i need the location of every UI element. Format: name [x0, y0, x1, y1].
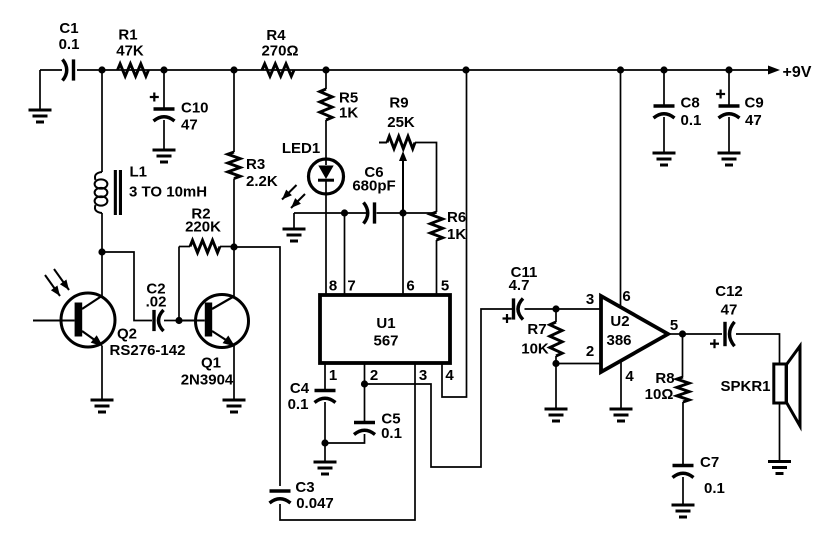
svg-text:R3: R3: [246, 156, 265, 173]
svg-text:2N3904: 2N3904: [181, 372, 234, 389]
op-amp U2 audio amp 386: [601, 296, 668, 372]
wire rail to L1: [101, 70, 103, 172]
node C2/R2/Q1 base junction: [175, 317, 182, 324]
svg-text:U1: U1: [376, 315, 395, 332]
node rail junction at R3: [230, 66, 237, 73]
svg-text:Q2: Q2: [117, 326, 137, 343]
node U1 pin 2 junction: [361, 380, 368, 387]
wire R6 to U1 pin 5: [436, 240, 438, 295]
wire Q2 emitter to ground: [101, 346, 103, 400]
wire C9 to ground: [728, 117, 730, 153]
wire U1 pin 2 lead: [364, 363, 366, 384]
svg-text:0.1: 0.1: [381, 425, 402, 442]
svg-text:C3: C3: [295, 479, 314, 496]
svg-text:5: 5: [441, 278, 449, 295]
svg-text:0.1: 0.1: [681, 112, 702, 129]
wire C3 top to R2/R3 node: [234, 247, 280, 486]
transistor Q1: [179, 295, 249, 389]
speaker SPKR1: [720, 346, 800, 426]
resistor R7: [521, 309, 562, 358]
svg-text:2.2K: 2.2K: [246, 173, 278, 190]
wire C8 to ground: [663, 117, 665, 153]
svg-text:2: 2: [586, 343, 594, 360]
svg-text:6: 6: [622, 288, 630, 305]
svg-text:C9: C9: [745, 95, 764, 112]
wire rail to R5: [325, 70, 327, 89]
wire C1 left to ground: [39, 70, 41, 110]
wire rail to C9: [728, 70, 730, 105]
resistor R8: [645, 370, 690, 403]
svg-text:6: 6: [406, 278, 414, 295]
svg-text:2: 2: [370, 367, 378, 384]
ground under R7: [545, 409, 568, 421]
wire Q1 emitter to ground: [233, 346, 235, 400]
Q2 incident light arrows: [45, 269, 69, 296]
inductor L1: [95, 164, 207, 216]
ground stub on LED row: [293, 213, 295, 229]
wire C12 to speaker: [736, 334, 780, 364]
wire Q1 collector lead: [233, 247, 235, 296]
LED LED1: [282, 140, 344, 194]
svg-text:1K: 1K: [339, 105, 358, 122]
svg-text:270Ω: 270Ω: [261, 43, 298, 60]
svg-text:4: 4: [445, 367, 454, 384]
svg-text:C1: C1: [59, 20, 78, 37]
node rail junction at C9: [725, 66, 732, 73]
svg-text:4: 4: [625, 368, 634, 385]
wire C4 to ground node: [324, 402, 326, 443]
capacitor C1: [59, 20, 80, 81]
node C6 right junction at U1 pin 6: [399, 209, 406, 216]
svg-text:5: 5: [670, 317, 678, 334]
svg-text:R6: R6: [447, 209, 466, 226]
capacitor C7: [673, 454, 725, 497]
ground under Q1: [223, 400, 246, 412]
svg-text:C12: C12: [715, 283, 743, 300]
node rail junction at U2 pin 6 feed: [617, 66, 624, 73]
wire pin 2 to C5: [364, 384, 366, 421]
node +9V arrow terminal: [768, 64, 812, 81]
wire R3 to R2/Q1 collector node: [233, 179, 235, 248]
ground under C9: [718, 153, 741, 165]
pin numbers U1 top (8 7 6 5): [329, 278, 449, 295]
capacitor C3: [270, 479, 334, 512]
svg-text:C8: C8: [681, 95, 700, 112]
node rail junction at U1 pin 4 feed: [462, 66, 469, 73]
node R7 top junction: [552, 305, 559, 312]
wire U1 pin 6 lead: [402, 213, 404, 295]
wire output node to C12: [683, 333, 723, 335]
ground under C7: [672, 505, 695, 517]
node rail junction at R1/C10: [160, 66, 167, 73]
node rail junction at C1/R1: [98, 66, 105, 73]
wire U1 pin 4 lead to rail: [442, 70, 467, 397]
capacitor C10: [150, 93, 209, 134]
ground under C4/C5: [314, 462, 337, 474]
LED1 light emission arrows: [282, 185, 305, 208]
pin numbers U2 (6 4 5): [622, 288, 678, 385]
svg-text:R1: R1: [118, 27, 137, 44]
potentiometer R9: [379, 95, 415, 149]
svg-text:47: 47: [721, 302, 738, 319]
wire C6 to pin6 node segment: [377, 212, 437, 214]
wire C7 to ground: [682, 477, 684, 505]
svg-text:1: 1: [329, 367, 337, 384]
wire LED cathode row left segment: [294, 212, 366, 214]
svg-text:3: 3: [419, 367, 427, 384]
svg-text:C10: C10: [181, 100, 209, 117]
ground on LED row: [283, 229, 306, 241]
wire ground node to ground: [324, 443, 326, 462]
capacitor C4: [288, 380, 336, 413]
svg-text:R7: R7: [527, 321, 546, 338]
svg-text:4.7: 4.7: [509, 277, 530, 294]
svg-text:Q1: Q1: [201, 355, 221, 372]
svg-text:10K: 10K: [521, 341, 549, 358]
capacitor C11: [503, 264, 538, 323]
svg-text:U2: U2: [610, 313, 629, 330]
svg-text:47: 47: [181, 117, 198, 134]
wire U2 pin 4 to ground: [620, 361, 622, 409]
wire U1 pin 7 lead: [344, 213, 346, 295]
node C6 left junction at U1 pin 7: [341, 209, 348, 216]
node U2 output junction: [679, 330, 686, 337]
wire U2 output to node: [668, 333, 683, 335]
svg-text:LED1: LED1: [282, 140, 320, 157]
svg-text:8: 8: [329, 278, 337, 295]
svg-text:386: 386: [606, 332, 631, 349]
svg-text:0.047: 0.047: [296, 495, 334, 512]
wire L1 to Q2 collector node: [101, 213, 103, 252]
svg-text:680pF: 680pF: [352, 178, 395, 195]
wire Q2 collector lead: [101, 252, 103, 296]
node L1/Q2 collector junction: [98, 248, 105, 255]
svg-text:3 TO 10mH: 3 TO 10mH: [129, 184, 207, 201]
resistor R4: [261, 27, 298, 76]
svg-text:0.1: 0.1: [288, 396, 309, 413]
R9 wiper arrow: [399, 151, 407, 213]
svg-text:10Ω: 10Ω: [645, 386, 674, 403]
wire R2 left to C2/Q1 base node: [178, 247, 180, 321]
svg-text:RS276-142: RS276-142: [110, 342, 186, 359]
svg-text:220K: 220K: [185, 219, 221, 236]
node rail junction at R5: [322, 66, 329, 73]
wire U1 pin 3 lead to bottom loop: [280, 363, 415, 520]
capacitor C8: [654, 95, 702, 130]
svg-text:47K: 47K: [116, 43, 144, 60]
capacitor C12: [710, 283, 743, 348]
capacitor C6: [352, 164, 395, 224]
node C4/C5 ground junction: [321, 439, 328, 446]
wire LED1 to U1 pin 8: [325, 181, 327, 295]
capacitor C9: [716, 90, 764, 130]
resistor R1: [116, 27, 148, 77]
node rail junction at C8: [660, 66, 667, 73]
svg-text:C7: C7: [700, 454, 719, 471]
wire C2 to Q1 base node: [164, 320, 179, 322]
wire collector node to C2: [102, 252, 152, 321]
wire rail to U2 pin 6: [620, 70, 622, 308]
wire output node to R8: [682, 334, 684, 377]
resistor R2: [179, 206, 234, 253]
wire rail to R3: [233, 70, 235, 152]
svg-text:0.1: 0.1: [704, 480, 725, 497]
wire C11 to U2 pin 3: [525, 308, 602, 310]
wire pin 2 net to amplifier input: [365, 309, 514, 467]
ground under C8: [653, 153, 676, 165]
wire rail to C8: [663, 70, 665, 105]
svg-text:SPKR1: SPKR1: [720, 378, 770, 395]
node R2/R3/Q1 collector junction: [230, 243, 237, 250]
svg-text:L1: L1: [130, 164, 148, 181]
svg-text:R9: R9: [389, 95, 408, 112]
svg-text:567: 567: [373, 333, 398, 350]
ground under C10: [153, 150, 176, 162]
resistor R6: [430, 209, 466, 243]
wire R8 to C7: [682, 402, 684, 464]
svg-text:3: 3: [586, 291, 594, 308]
node R7 bottom junction: [552, 360, 559, 367]
wire rail to C10: [163, 70, 165, 108]
pin numbers U1 bottom (1 2 3 4): [329, 367, 455, 384]
wire R7 bottom to U2 pin 2: [555, 356, 557, 364]
wire C10 to ground: [163, 120, 165, 150]
op-amp U1 tone decoder 567: [320, 295, 450, 363]
capacitor C5: [354, 411, 402, 443]
capacitor C2: [146, 281, 167, 332]
svg-text:R8: R8: [655, 370, 674, 387]
svg-text:1K: 1K: [447, 226, 466, 243]
wire R5 to LED1: [325, 120, 327, 165]
wire C4/C5 bottom link: [325, 434, 365, 443]
svg-text:7: 7: [347, 278, 355, 295]
svg-text:47: 47: [745, 112, 762, 129]
wire U1 pin 1 lead: [324, 363, 326, 389]
svg-text:0.1: 0.1: [59, 36, 80, 53]
wire R9 right terminal to R6 top: [415, 143, 437, 213]
wire +9V supply rail: [40, 69, 769, 71]
ground under speaker: [768, 462, 791, 474]
wire speaker to ground: [779, 403, 781, 462]
wire R7 node to ground: [555, 364, 557, 410]
ground under U2: [610, 409, 633, 421]
resistor R3: [228, 152, 278, 190]
svg-text:R4: R4: [266, 27, 286, 44]
ground under Q2: [91, 400, 114, 412]
svg-text:C4: C4: [290, 380, 310, 397]
ground under C1 input: [29, 110, 52, 122]
svg-text:25K: 25K: [387, 114, 415, 131]
pin numbers U2 left (3 2): [586, 291, 594, 360]
transistor Q2 phototransistor: [33, 293, 185, 359]
resistor R5: [320, 89, 359, 122]
svg-text:.02: .02: [146, 294, 167, 311]
svg-text:+9V: +9V: [783, 64, 812, 81]
